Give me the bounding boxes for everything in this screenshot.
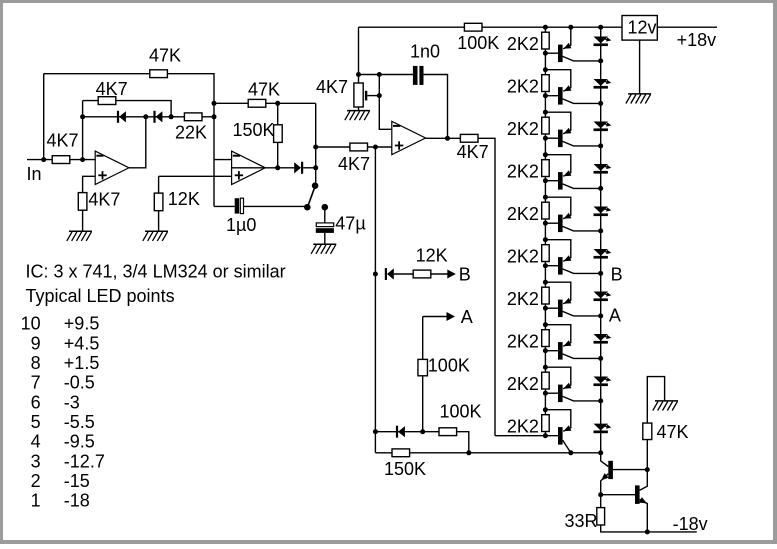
- svg-text:100K: 100K: [457, 33, 499, 53]
- node wiper junction: [377, 93, 382, 98]
- svg-text:12K: 12K: [416, 245, 448, 265]
- resistor 150K bottom: [384, 449, 426, 479]
- op-amp U1: [95, 151, 129, 184]
- wire 12K leg: [158, 176, 160, 193]
- svg-text:47K: 47K: [657, 422, 689, 442]
- wire rail riser: [358, 27, 360, 83]
- svg-text:150K: 150K: [233, 120, 275, 140]
- wire U2 minus input: [214, 159, 232, 161]
- ground 47K: [653, 401, 678, 411]
- svg-text:12v: 12v: [628, 18, 657, 38]
- svg-text:A: A: [609, 306, 621, 326]
- potentiometer 4K7: [316, 77, 363, 107]
- resistor 2K2 stage 8: [507, 330, 549, 352]
- resistor 33R: [565, 508, 605, 531]
- transistor Q6: [543, 237, 601, 274]
- wire 12K ground stub: [158, 211, 160, 232]
- svg-text:+4.5: +4.5: [64, 333, 100, 353]
- wire 2K2 column: [544, 27, 546, 436]
- svg-text:2K2: 2K2: [507, 204, 539, 224]
- svg-text:4K7: 4K7: [96, 79, 128, 99]
- svg-text:100K: 100K: [440, 402, 482, 422]
- table row LED 7: [31, 373, 95, 393]
- wire pot ground stub: [358, 107, 360, 111]
- svg-text:5: 5: [31, 412, 41, 432]
- ground 47u: [311, 244, 336, 254]
- switch pole: [312, 182, 319, 189]
- node base stage 6 and wire: [543, 263, 558, 268]
- resistor 100K A: [418, 355, 470, 375]
- wire U1 plus leg: [83, 176, 96, 193]
- svg-text:-15: -15: [64, 471, 90, 491]
- table row LED 9: [31, 333, 100, 353]
- node 150K top: [275, 101, 280, 106]
- wire feedback top-left vertical: [43, 74, 45, 160]
- wire U2 out to diode: [278, 167, 295, 169]
- svg-text:2K2: 2K2: [507, 374, 539, 394]
- wire 12v ground stub: [639, 40, 641, 94]
- wire pot top row: [359, 74, 413, 76]
- svg-text:33R: 33R: [565, 511, 598, 531]
- svg-text:-12.7: -12.7: [64, 451, 105, 471]
- node collector stage 4: [598, 186, 603, 191]
- transistor Q2: [543, 67, 601, 104]
- node base stage 8 and wire: [543, 348, 558, 353]
- switch contact right: [322, 204, 329, 211]
- ground U1: [67, 231, 92, 241]
- svg-text:2: 2: [31, 471, 41, 491]
- svg-text:2K2: 2K2: [507, 76, 539, 96]
- node diode row left: [80, 114, 85, 119]
- node collector stage 5: [598, 228, 603, 233]
- svg-text:-18v: -18v: [673, 514, 708, 534]
- wire diode to node: [303, 167, 316, 169]
- LED D6: [594, 249, 612, 259]
- svg-text:4: 4: [31, 432, 41, 452]
- svg-text:10: 10: [21, 314, 41, 334]
- wire U3 out row: [448, 138, 496, 435]
- node LED column bottom: [598, 450, 603, 455]
- resistor 47K driver: [643, 422, 689, 442]
- svg-text:-18: -18: [64, 491, 90, 511]
- node detector tap: [313, 145, 318, 150]
- transistor Q4: [543, 152, 601, 189]
- node collector stage 8: [598, 356, 603, 361]
- wire 150K row: [375, 452, 600, 454]
- node A-100K junction: [420, 429, 425, 434]
- wire U3 output: [426, 137, 448, 139]
- diode D3 rectifier: [294, 162, 303, 174]
- svg-text:2K2: 2K2: [507, 416, 539, 436]
- transistor Q3: [543, 110, 601, 147]
- LED D4: [594, 164, 612, 174]
- arrow B: [447, 264, 471, 284]
- svg-text:-3: -3: [64, 392, 80, 412]
- resistor 2K2 stage 9: [507, 372, 549, 394]
- LED D10: [594, 424, 612, 434]
- resistor 12K U2: [154, 189, 200, 211]
- node 1n0 branch: [377, 72, 382, 77]
- LED D5: [594, 207, 612, 217]
- diode D1 clamp: [117, 111, 126, 123]
- svg-text:Typical LED points: Typical LED points: [26, 286, 175, 306]
- node base stage 3 and wire: [543, 136, 558, 141]
- table row LED 10: [21, 314, 100, 334]
- LED D8: [594, 334, 612, 344]
- svg-text:47µ: 47µ: [335, 214, 365, 234]
- resistor 2K2 stage 7: [507, 287, 549, 309]
- node U3 output: [445, 136, 450, 141]
- resistor 150K: [233, 120, 283, 143]
- resistor 100K rail: [457, 23, 499, 53]
- svg-text:100K: 100K: [428, 355, 470, 375]
- label B right: [611, 264, 623, 284]
- wire U1 ground stub: [82, 210, 84, 231]
- label In: [27, 164, 42, 184]
- node collector stage 1: [598, 58, 603, 63]
- svg-text:2K2: 2K2: [507, 119, 539, 139]
- resistor 2K2 stage 2: [507, 75, 549, 97]
- table row LED 2: [31, 471, 90, 491]
- node rail LED column: [598, 25, 603, 30]
- svg-text:150K: 150K: [384, 459, 426, 479]
- svg-text:47K: 47K: [248, 80, 280, 100]
- node U1 minus input: [80, 157, 85, 162]
- table row LED 1: [31, 491, 90, 511]
- node B tap: [373, 272, 378, 277]
- svg-text:+18v: +18v: [677, 30, 717, 50]
- resistor 2K2 stage 1: [507, 32, 549, 54]
- diode D4 B tap: [385, 268, 394, 280]
- svg-text:2K2: 2K2: [507, 246, 539, 266]
- wire 47K second row: [214, 102, 316, 104]
- arrow A: [447, 307, 473, 327]
- node 22K output: [212, 114, 217, 119]
- resistor 2K2 stage 5: [507, 202, 549, 224]
- transistor Q7: [543, 280, 601, 317]
- transistor Q10: [543, 407, 572, 453]
- table row LED 5: [31, 412, 95, 432]
- svg-text:6: 6: [31, 392, 41, 412]
- node diode row mid: [143, 114, 148, 119]
- note LED points title: [26, 286, 175, 306]
- resistor 2K2 stage 4: [507, 160, 549, 182]
- resistor 4K7 U3 output: [457, 134, 489, 162]
- node collector stage 7: [598, 313, 603, 318]
- ground pot: [345, 111, 370, 121]
- node base stage 9 and wire: [543, 391, 558, 396]
- resistor 2K2 stage 3: [507, 117, 549, 139]
- node collector stage 3: [598, 143, 603, 148]
- resistor 2K2 stage 6: [507, 245, 549, 267]
- wire -18v rail: [601, 525, 697, 532]
- node -18v junction: [645, 529, 650, 534]
- wire 1n0 to output: [424, 75, 448, 139]
- wire 47K riser: [647, 377, 664, 424]
- wire 47K feedback top: [44, 74, 214, 207]
- node U3 plus tap: [373, 145, 378, 150]
- svg-text:+9.5: +9.5: [64, 314, 100, 334]
- wire A row: [423, 316, 447, 318]
- node collector stage 9: [598, 398, 603, 403]
- svg-text:2K2: 2K2: [507, 289, 539, 309]
- wire tap vertical: [374, 147, 376, 453]
- node pot top: [356, 72, 361, 77]
- resistor 47K feedback: [149, 45, 181, 77]
- table row LED 6: [31, 392, 80, 412]
- svg-text:2K2: 2K2: [507, 161, 539, 181]
- svg-text:B: B: [611, 264, 623, 284]
- diode D2 clamp: [153, 111, 162, 123]
- svg-text:-0.5: -0.5: [64, 373, 95, 393]
- wire input In: [27, 159, 95, 161]
- svg-text:1µ0: 1µ0: [226, 215, 256, 235]
- LED D2: [594, 79, 612, 89]
- transistor Q5: [543, 195, 601, 232]
- node input junction: [41, 157, 46, 162]
- transistor Q12: [635, 470, 647, 532]
- LED D9: [594, 377, 612, 387]
- op-amp U3: [392, 121, 426, 154]
- transistor Q11: [601, 461, 648, 495]
- svg-text:1: 1: [31, 491, 41, 511]
- pot wiper: [365, 91, 379, 101]
- resistor 4K7 U3 input: [338, 143, 370, 174]
- capacitor 47u electrolytic: [316, 214, 366, 234]
- wire diode row: [83, 116, 214, 118]
- node collector stage 6: [598, 271, 603, 276]
- node base stage 2 and wire: [543, 93, 558, 98]
- transistor Q9: [543, 365, 601, 402]
- resistor 100K bottom: [439, 402, 482, 436]
- svg-text:3: 3: [31, 451, 41, 471]
- svg-text:2K2: 2K2: [507, 331, 539, 351]
- node collector stage 2: [598, 101, 603, 106]
- wire Q12 base: [601, 494, 635, 496]
- svg-text:IC: 3 x 741, 3/4 LM324 or simi: IC: 3 x 741, 3/4 LM324 or similar: [26, 262, 286, 282]
- wire 4K7 inner feedback: [83, 101, 172, 117]
- svg-text:+1.5: +1.5: [64, 353, 100, 373]
- svg-text:1n0: 1n0: [410, 42, 440, 62]
- node base stage 10 and wire: [495, 433, 558, 438]
- wire LED column to Q11: [601, 453, 609, 467]
- svg-text:47K: 47K: [149, 45, 181, 65]
- ground 12K: [143, 231, 168, 241]
- resistor 12K B: [413, 245, 447, 278]
- svg-text:In: In: [27, 164, 42, 184]
- resistor 4K7 input: [47, 131, 79, 164]
- switch lever: [307, 188, 315, 210]
- label +18v: [677, 30, 717, 50]
- node base stage 7 and wire: [543, 306, 558, 311]
- node Q11 collector: [645, 467, 650, 472]
- wire rail to +18v: [657, 26, 717, 28]
- label -18v: [673, 514, 708, 534]
- LED D1: [594, 37, 612, 47]
- node rail emitter column: [568, 25, 573, 30]
- wire A vertical: [422, 317, 424, 432]
- capacitor 1u0: [226, 198, 256, 235]
- wire bottom diode row: [375, 431, 439, 433]
- wire U2 output: [232, 167, 278, 169]
- transistor Q8: [543, 322, 601, 359]
- wire 100K corner: [457, 432, 469, 453]
- svg-text:7: 7: [31, 373, 41, 393]
- note IC types: [26, 262, 286, 282]
- node Q12 base: [598, 492, 603, 497]
- svg-text:B: B: [459, 264, 471, 284]
- ground 12v: [626, 94, 651, 104]
- svg-text:22K: 22K: [175, 123, 207, 143]
- wire U2 plus input: [159, 175, 232, 177]
- label A right: [609, 306, 621, 326]
- table row LED 4: [31, 432, 95, 452]
- svg-text:4K7: 4K7: [88, 189, 120, 209]
- capacitor 1n0: [410, 42, 440, 85]
- svg-text:12K: 12K: [168, 189, 200, 209]
- wire detector vertical: [315, 103, 317, 182]
- node collector stage 10: [568, 450, 573, 455]
- svg-text:4K7: 4K7: [457, 142, 489, 162]
- wire 1u0 row: [214, 205, 235, 207]
- resistor 47K second: [248, 80, 280, 108]
- node 150K junction: [466, 450, 471, 455]
- resistor 4K7 inner feedback: [96, 79, 128, 105]
- node base stage 1 and wire: [543, 51, 558, 56]
- wire B row: [394, 273, 448, 275]
- op-amp U2: [232, 151, 266, 184]
- svg-text:8: 8: [31, 353, 41, 373]
- regulator 12v box: [622, 16, 657, 41]
- wire U1 minus node vertical: [82, 101, 84, 160]
- wire 1u0 to switch: [244, 205, 308, 207]
- LED D7: [594, 292, 612, 302]
- table row LED 3: [31, 451, 105, 471]
- node feedback tap: [212, 101, 217, 106]
- node U2 output 150K: [275, 165, 280, 170]
- wire 150K vertical: [277, 103, 279, 168]
- svg-text:4K7: 4K7: [316, 77, 348, 97]
- resistor 4K7 U1 ground leg: [78, 189, 120, 210]
- wire wiper vertical: [379, 75, 392, 130]
- transistor Q1: [558, 27, 601, 62]
- node diode row right: [169, 114, 174, 119]
- wire 47u ground stub: [324, 233, 326, 244]
- wire 33R top: [600, 495, 602, 508]
- wire top rail: [359, 26, 623, 28]
- node rail 2K2 column: [543, 25, 548, 30]
- svg-text:9: 9: [31, 333, 41, 353]
- svg-text:4K7: 4K7: [338, 154, 370, 174]
- switch contact left: [304, 204, 311, 211]
- wire 47u top: [324, 207, 326, 223]
- resistor 22K: [175, 113, 207, 143]
- svg-text:-9.5: -9.5: [64, 432, 95, 452]
- diode D5 bottom: [396, 426, 405, 438]
- svg-text:A: A: [461, 307, 473, 327]
- node base stage 5 and wire: [543, 221, 558, 226]
- LED D3: [594, 122, 612, 132]
- wire 47K to collector: [646, 440, 648, 470]
- node base stage 4 and wire: [543, 178, 558, 183]
- svg-text:2K2: 2K2: [507, 34, 539, 54]
- resistor 2K2 stage 10: [507, 415, 549, 437]
- svg-text:4K7: 4K7: [47, 131, 79, 151]
- node detector: [313, 165, 318, 170]
- node bottom diode row: [373, 429, 378, 434]
- wire U3 plus row: [316, 146, 392, 148]
- svg-text:-5.5: -5.5: [64, 412, 95, 432]
- wire LED column: [600, 27, 602, 453]
- table row LED 8: [31, 353, 100, 373]
- wire U1 output: [129, 117, 146, 168]
